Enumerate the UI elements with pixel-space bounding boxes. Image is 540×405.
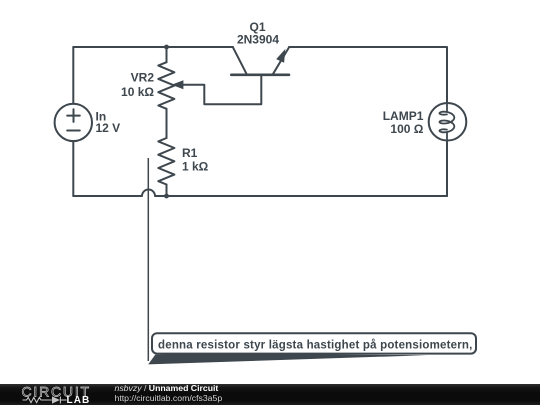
wire top: Q1 emitter to LAMP1 <box>289 47 447 103</box>
wire left: top rail to source <box>72 47 74 104</box>
wire VR2 bottom to R1 top <box>166 109 168 138</box>
svg-text:VR2: VR2 <box>131 71 155 85</box>
annotation leader line <box>147 158 149 361</box>
svg-text:R1: R1 <box>182 146 198 160</box>
junction dot bottom <box>164 194 169 199</box>
wire VR2 wiper to Q1 base <box>183 76 261 104</box>
svg-text:LAMP1: LAMP1 <box>383 109 424 123</box>
annotation box <box>152 333 476 353</box>
attribution text <box>115 383 223 404</box>
svg-text:10 kΩ: 10 kΩ <box>121 85 154 99</box>
wire left: source to bottom rail <box>72 141 74 196</box>
svg-text:100 Ω: 100 Ω <box>390 122 423 136</box>
voltage source In 12 V <box>55 104 92 141</box>
logo resistor zigzag and diode <box>23 397 67 404</box>
junction dot top <box>164 45 169 50</box>
resistor R1 <box>158 138 174 185</box>
lamp LAMP1 <box>429 103 467 141</box>
wire VR2 top lead <box>166 47 168 62</box>
svg-text:2N3904: 2N3904 <box>237 33 279 47</box>
wire R1 bottom lead <box>166 185 168 197</box>
annotation shadow wedge <box>148 354 427 365</box>
wire right: LAMP1 to bottom rail <box>446 141 448 196</box>
potentiometer VR2 <box>158 62 183 109</box>
svg-text:1 kΩ: 1 kΩ <box>182 160 209 174</box>
svg-text:12 V: 12 V <box>96 121 121 135</box>
svg-text:denna resistor styr lägsta has: denna resistor styr lägsta hastighet på … <box>158 340 473 352</box>
transistor Q1 <box>231 47 289 74</box>
bottom brand bar <box>0 384 540 405</box>
wire bottom rail (with hop over annotation leader) <box>73 190 447 197</box>
labels <box>96 20 424 174</box>
svg-text:LAB: LAB <box>67 395 91 405</box>
wire top: source positive to Q1 collector <box>73 46 233 48</box>
